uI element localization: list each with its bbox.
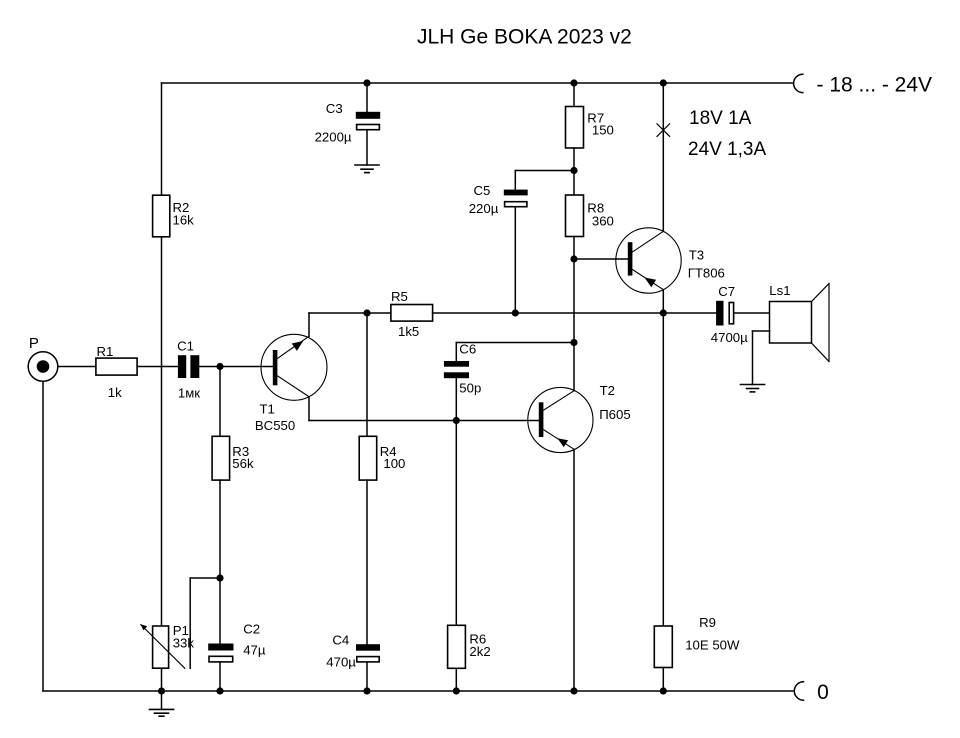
wire R6 to ground rail [455,668,457,691]
node C6 / T1 collector row / R6 [453,417,460,424]
resistor R3 [212,436,254,480]
svg-text:150: 150 [592,123,614,138]
svg-text:10E 50W: 10E 50W [685,637,740,652]
svg-text:R9: R9 [699,615,716,630]
wire R7 top lead [573,83,575,107]
node C1 / R3 [216,363,223,370]
transistor T2 [528,383,631,453]
svg-text:56k: 56k [232,456,254,471]
wire T3 emitter down [662,290,664,313]
capacitor C1 [177,338,200,400]
node R7 / R8 / C5 [570,167,577,174]
transistor T1 [255,334,327,433]
wire C5 link row [515,170,574,172]
wire P1 wiper up [189,578,191,668]
resistor R5 [391,289,433,339]
svg-text:24V 1,3A: 24V 1,3A [688,139,766,160]
node rail / P1 ground [158,687,165,694]
wire output node to C7 [663,312,716,314]
wire C3 top lead [366,83,368,112]
wire R5 to output column [433,312,664,314]
wire T1 collector row to T2 base [309,420,539,422]
capacitor C7 [711,284,748,345]
node top rail / C3 [363,79,370,86]
node R8 / T3 base / T2 collector [570,255,577,262]
svg-text:T1: T1 [260,402,275,417]
wire top supply rail [162,82,794,84]
resistor R9 [654,615,740,667]
wire P down to ground rail [42,381,44,691]
wire T1 emitter row to R5 [309,312,391,314]
wire R8 to T3 base node [573,237,575,260]
node rail / T2 emitter [570,687,577,694]
wire R3 top lead [219,367,221,437]
wire P1 bottom lead [161,668,163,691]
ground under speaker [741,385,765,392]
wire R4 column upper [366,313,368,436]
svg-text:1k: 1k [108,385,122,400]
svg-text:1k5: 1k5 [398,324,419,339]
ground under C3 [355,165,379,173]
wire C7 to speaker [734,312,769,314]
wire speaker return down [752,331,754,385]
svg-text:16k: 16k [173,213,195,228]
node R5 row / R4 column [363,309,370,316]
wire T1 collector down [308,397,310,421]
svg-text:1мк: 1мк [178,385,200,400]
svg-text:C1: C1 [177,338,194,353]
svg-text:C2: C2 [243,622,260,637]
wire left column (R2 to P1) [161,237,163,626]
resistor R8 [566,195,614,237]
svg-text:- 18 ... - 24V: - 18 ... - 24V [817,74,933,97]
wire C2 to ground rail [219,662,221,691]
wire P1 wiper to C2 node [190,577,220,579]
svg-text:47µ: 47µ [243,643,266,658]
svg-text:2200µ: 2200µ [315,130,352,145]
svg-text:18V 1A: 18V 1A [689,108,752,129]
wire T1 emitter up [308,313,310,336]
svg-text:220µ: 220µ [469,201,499,216]
terminal -18...-24V arc [794,74,803,92]
capacitor C3 [315,101,381,145]
capacitor C2 [208,622,266,662]
svg-text:P: P [29,335,39,352]
svg-text:50p: 50p [459,381,481,396]
resistor R4 [359,436,405,480]
wire T3 base lead [574,258,628,260]
wire R6 top lead [455,421,457,626]
wire R1 to C1 [137,366,178,368]
svg-text:C6: C6 [459,342,476,357]
svg-text:C7: C7 [718,284,735,299]
resistor R1 [96,344,137,400]
capacitor C4 [326,632,380,669]
node rail / R6 [453,687,460,694]
wire bottom ground rail [43,690,793,692]
resistor R2 [153,195,195,237]
transistor T3 [616,228,725,293]
wire R3 bottom to wiper node [219,480,221,643]
node rail / R9 [660,687,667,694]
wire C6 top lead [455,343,457,362]
svg-text:ГТ806: ГТ806 [688,265,725,280]
svg-text:T3: T3 [689,248,704,263]
node R5 row / T3 emitter column [660,309,667,316]
wire output column down to R9 [662,313,664,626]
wire P to R1 [58,366,96,368]
svg-text:T2: T2 [600,383,615,398]
svg-text:R5: R5 [391,289,408,304]
potentiometer P1 [141,623,195,668]
fuse point X on T3 collector [657,124,670,137]
node C6 link / T2 collector column [570,339,577,346]
wire C5 bottom lead [514,207,516,313]
svg-text:C3: C3 [326,101,343,116]
svg-text:360: 360 [592,213,614,228]
svg-text:33k: 33k [173,636,195,651]
wire left column top (rail to R2) [161,83,163,195]
node rail / C4 [363,687,370,694]
wire T2 collector column [573,259,575,391]
wire C4 to ground rail [366,663,368,692]
svg-text:C4: C4 [332,632,349,647]
svg-text:П605: П605 [599,407,630,422]
wire R9 to ground rail [662,668,664,692]
wire R7 to R8 [573,148,575,195]
wire speaker return [753,330,770,332]
wire C5 top lead [514,171,516,190]
capacitor C5 [469,183,528,216]
svg-text:C5: C5 [474,183,491,198]
wire C3 bottom lead [366,130,368,165]
wire C1 to T1 base [199,366,272,368]
resistor R7 [566,107,614,149]
node rail / C2 [216,687,223,694]
svg-text:BC550: BC550 [255,418,295,433]
wire T3 collector up to rail [662,83,664,231]
svg-text:0: 0 [817,681,829,704]
node top rail / T3 collector [660,79,667,86]
connector P [28,335,58,381]
node R3 / C2 / P1 wiper [216,574,223,581]
ground bottom left [150,709,174,716]
svg-text:4700µ: 4700µ [711,330,748,345]
wire C6 bottom lead [455,378,457,420]
svg-text:100: 100 [383,456,405,471]
speaker Ls1 [769,283,829,361]
resistor R6 [448,625,491,668]
capacitor C6 [444,342,481,396]
wire C6 link row [456,342,574,344]
svg-text:JLH Ge BOKA 2023 v2: JLH Ge BOKA 2023 v2 [417,26,632,49]
wire R4 to C4 [366,480,368,644]
wire ground stub bottom left [161,691,163,709]
node top rail / R7 [570,79,577,86]
terminal 0 arc [794,682,803,700]
svg-text:R1: R1 [97,344,114,359]
svg-text:Ls1: Ls1 [769,283,790,298]
node R5 row / C5 [512,309,519,316]
svg-text:2k2: 2k2 [469,644,490,659]
svg-text:470µ: 470µ [326,655,356,670]
wire T2 emitter down to ground rail [573,449,575,691]
